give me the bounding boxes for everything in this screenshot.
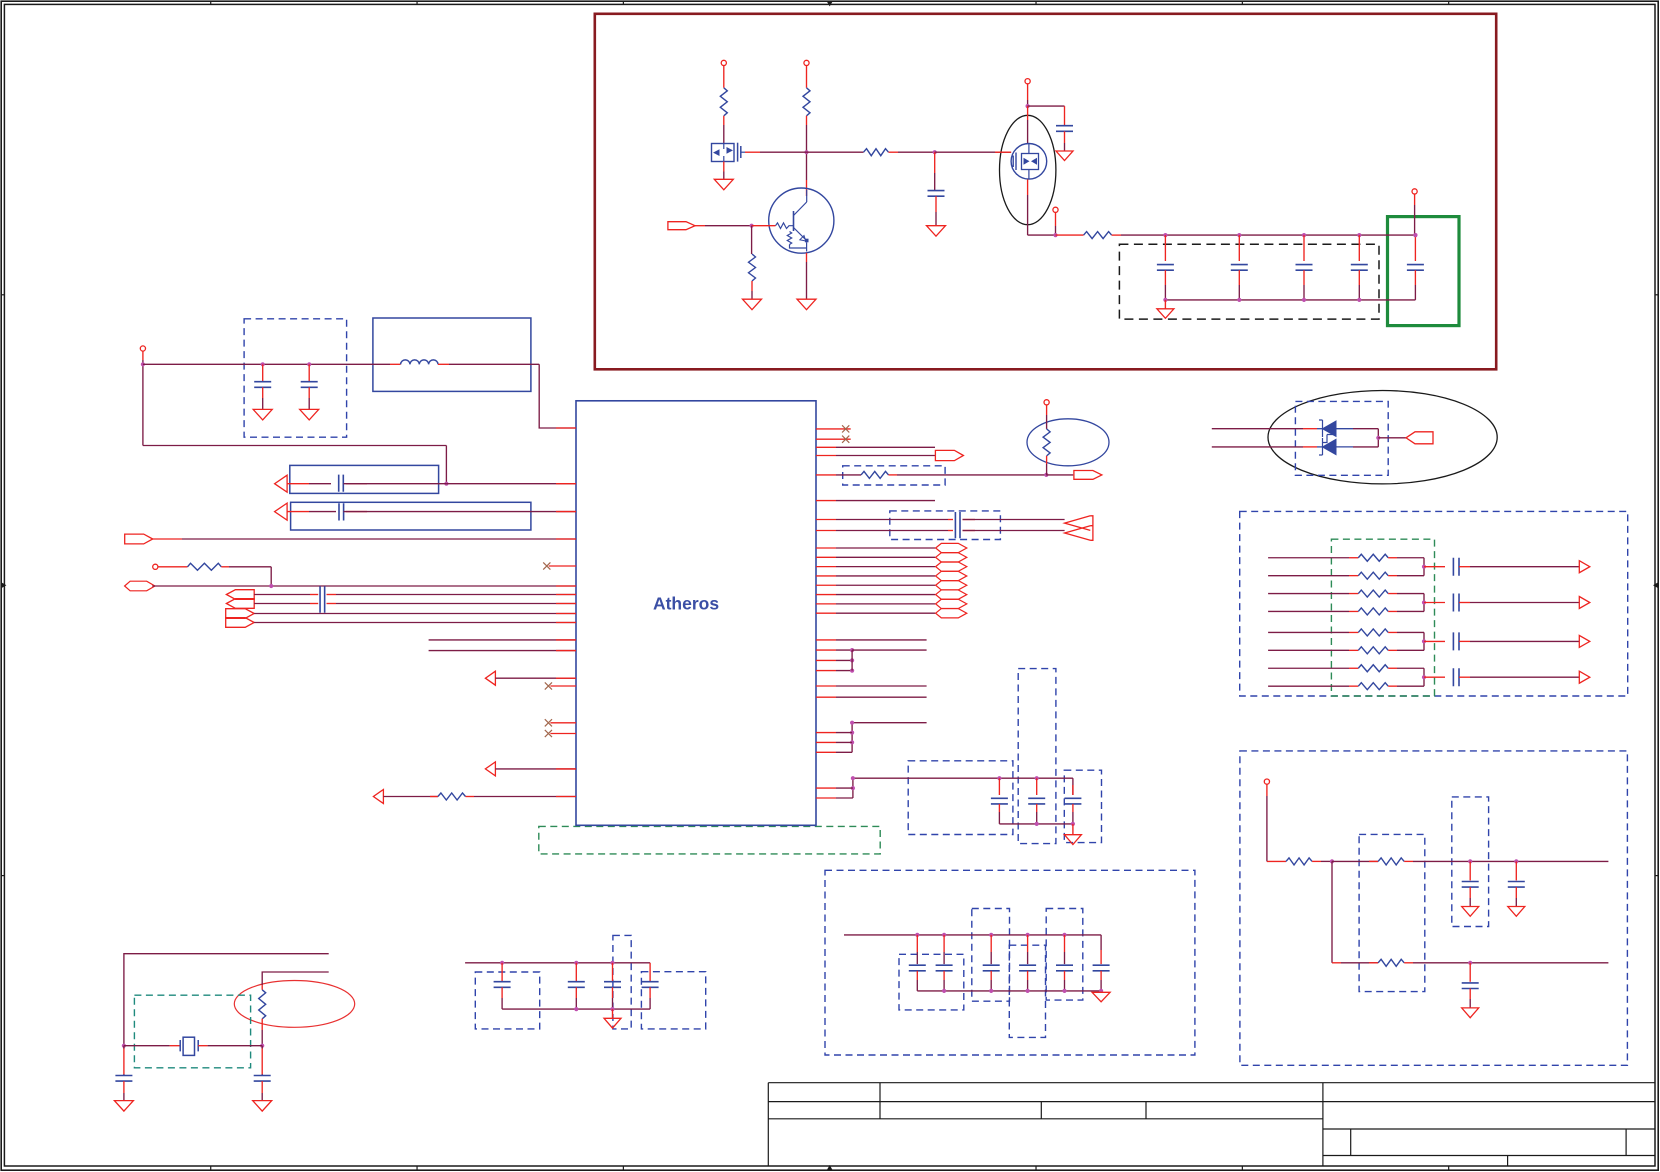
svg-text:Atheros: Atheros: [653, 594, 719, 614]
